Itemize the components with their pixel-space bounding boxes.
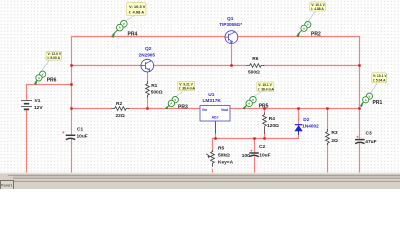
svg-text:R3: R3 (331, 130, 337, 136)
svg-text:22Ω: 22Ω (116, 113, 125, 119)
svg-text:Q1: Q1 (227, 16, 234, 22)
node rail108 left (70, 107, 72, 109)
svg-text:500Ω: 500Ω (151, 90, 163, 96)
svg-text:D2: D2 (303, 117, 309, 123)
svg-text:V: V (174, 98, 176, 102)
tab strip line (14, 180, 400, 183)
probe PR5 (243, 82, 275, 110)
svg-text:V: V (123, 22, 125, 26)
svg-text:PR6: PR6 (47, 78, 57, 84)
capacitor C1 (62, 126, 88, 139)
wire C2 leads (254, 139, 256, 173)
svg-text:47uF: 47uF (365, 139, 376, 145)
svg-text:I: 5.00 A: I: 5.00 A (48, 56, 61, 60)
probe PR6 (34, 51, 62, 85)
svg-text:2N2905: 2N2905 (139, 52, 156, 57)
svg-text:10uF: 10uF (77, 133, 88, 139)
wire R3 leads (327, 109, 329, 173)
svg-text:R2: R2 (116, 101, 122, 107)
svg-text:Q2: Q2 (145, 46, 152, 52)
svg-text:Vout: Vout (221, 108, 229, 112)
wire adj rail y138.3 (213, 138, 299, 140)
wire R5 leads (212, 139, 214, 173)
wire ADJ pin stub (215, 121, 217, 134)
svg-text:R4: R4 (269, 116, 275, 122)
svg-text:Vin: Vin (202, 108, 207, 112)
svg-text:500Ω: 500Ω (248, 69, 260, 75)
wire main rail y108.6 (72, 108, 360, 110)
resistor R3 (326, 129, 338, 145)
node rail65 left (70, 64, 72, 66)
transistor Q2 (139, 46, 156, 72)
node R1 bottom (146, 107, 148, 109)
svg-text:C2: C2 (259, 144, 265, 150)
scrollbar groove (13, 175, 400, 179)
svg-text:2Ω: 2Ω (331, 138, 338, 144)
probe PR4 (111, 3, 146, 38)
probe PR2 (296, 2, 325, 38)
resistor R6 (247, 56, 265, 75)
svg-text:V: V (368, 94, 370, 98)
svg-text:PR4: PR4 (128, 31, 138, 37)
node Q1 emitter (230, 64, 232, 66)
capacitor C2 (242, 144, 271, 159)
sheet tab Power1 (0, 181, 13, 190)
wire right drop vertical (359, 37, 361, 109)
wire R1 bottom (147, 97, 149, 109)
svg-text:50kΩ: 50kΩ (218, 153, 230, 159)
svg-text:V: V (252, 98, 254, 102)
wire rail y65 Q2 base / R6 (72, 65, 360, 67)
node D2 top (297, 107, 299, 109)
svg-text:I: 38.4 mA: I: 38.4 mA (179, 87, 195, 91)
wire left drop V1 branch vertical (71, 37, 73, 173)
node R4 top (263, 107, 265, 109)
svg-text:R5: R5 (218, 146, 224, 152)
node C2 top (253, 137, 255, 139)
svg-text:TIP3055G*: TIP3055G* (219, 22, 242, 27)
svg-text:V1: V1 (35, 98, 41, 104)
svg-text:V: V (307, 23, 309, 27)
svg-text:120Ω: 120Ω (267, 123, 279, 129)
svg-text:ADJ: ADJ (212, 115, 219, 119)
svg-text:LM317K: LM317K (203, 98, 222, 104)
wire Q2 to R1 (147, 72, 149, 81)
svg-text:PR1: PR1 (373, 100, 383, 106)
junction node battery rail (70, 64, 360, 139)
diode D2 1N4002 (295, 117, 319, 135)
resistor R4 (263, 113, 279, 135)
svg-text:10uF: 10uF (259, 153, 270, 159)
svg-text:A: A (38, 76, 40, 80)
capacitor C3 (355, 131, 376, 145)
wire ADJ red segment (215, 134, 217, 139)
svg-text:Power1: Power1 (1, 184, 13, 188)
battery V1 (21, 101, 32, 110)
transistor Q1 (219, 16, 242, 44)
node ADJ junction (214, 137, 216, 139)
node R3 top (326, 107, 328, 109)
probe PR3 (165, 81, 195, 110)
svg-text:U1: U1 (208, 92, 214, 98)
svg-text:A: A (119, 26, 121, 30)
wire R4 leads (264, 109, 266, 139)
node R4 bottom (263, 137, 265, 139)
svg-text:Key=A: Key=A (218, 159, 234, 165)
node PR1 corner (358, 107, 360, 109)
svg-text:R6: R6 (252, 56, 258, 62)
svg-text:V: V (42, 72, 44, 76)
wire D2 leads (298, 109, 300, 139)
wire top rail (27, 37, 360, 173)
wire Q1 emitter (231, 43, 233, 65)
regulator U1 LM317K (200, 92, 230, 134)
node rail65 right (358, 64, 360, 66)
svg-text:A: A (248, 102, 250, 106)
svg-text:A: A (170, 102, 172, 106)
resistor R2 (112, 101, 130, 119)
svg-text:PR2: PR2 (311, 32, 321, 38)
svg-text:A: A (303, 26, 305, 30)
svg-text:PR5: PR5 (259, 104, 269, 110)
svg-text:I: 5.04 A: I: 5.04 A (373, 79, 386, 83)
svg-text:C3: C3 (366, 131, 372, 137)
wire battery top (27, 85, 72, 173)
svg-text:1N4002: 1N4002 (302, 123, 319, 128)
potentiometer R5 (206, 146, 233, 167)
svg-text:I: 4.98 A: I: 4.98 A (129, 9, 144, 14)
svg-text:C1: C1 (77, 126, 83, 132)
wire C3 leads (359, 109, 361, 173)
svg-text:I: 38.4 mA: I: 38.4 mA (258, 87, 274, 91)
svg-text:I: 4.88 A: I: 4.88 A (311, 7, 324, 11)
UI bottom bar (0, 173, 400, 190)
probe PR1 (360, 73, 388, 107)
svg-text:100: 100 (242, 153, 250, 159)
svg-text:12V: 12V (34, 105, 43, 111)
svg-text:PR3: PR3 (178, 104, 188, 110)
svg-text:R1: R1 (151, 83, 157, 89)
resistor R1 (146, 81, 163, 98)
svg-text:A: A (365, 98, 367, 102)
